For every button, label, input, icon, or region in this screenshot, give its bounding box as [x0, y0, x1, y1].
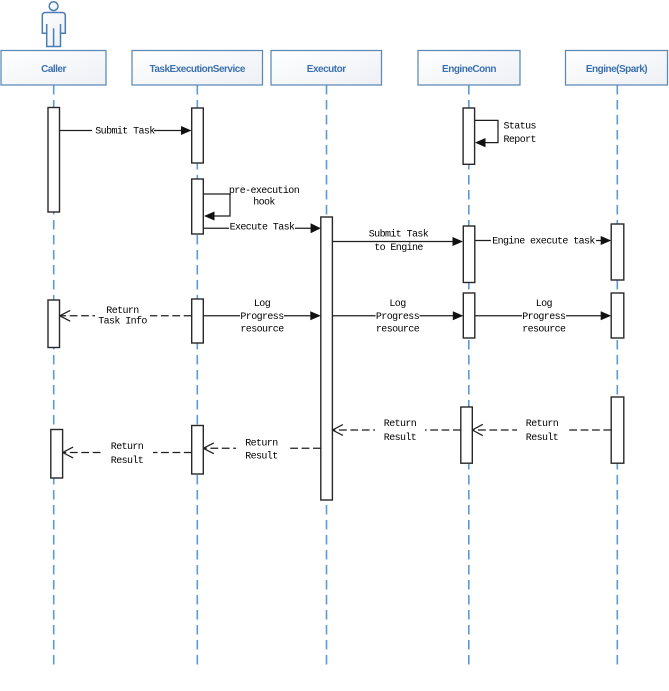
svg-text:Submit Task: Submit Task [95, 125, 155, 137]
svg-text:Submit Task: Submit Task [369, 229, 429, 241]
activation bar TaskExecutionService T3 [192, 299, 204, 343]
svg-text:Return: Return [384, 419, 417, 430]
svg-text:resource: resource [376, 325, 420, 336]
message Log Progress resource (EngineConn to Engine) [475, 299, 611, 335]
svg-text:Status: Status [504, 122, 537, 133]
activation bar EngineConn E2 [463, 226, 475, 283]
svg-text:Task Info: Task Info [98, 316, 147, 328]
message Return Task Info (TES to Caller, dashed) [60, 304, 192, 328]
self message Status Report (EngineConn) [475, 120, 537, 147]
message Return Result (TES to Caller, dashed) [63, 441, 192, 467]
message Engine execute task (EngineConn to Engine) [475, 235, 611, 248]
svg-text:Result: Result [384, 432, 416, 444]
header box Engine(Spark) [566, 51, 668, 86]
lifeline TaskExecutionService [196, 85, 198, 668]
message Return Result (Engine to EngineConn, dashed) [472, 418, 611, 445]
svg-text:resource: resource [240, 325, 284, 336]
svg-text:Log: Log [536, 299, 553, 310]
svg-text:to Engine: to Engine [374, 242, 423, 254]
svg-text:Progress: Progress [240, 312, 284, 323]
svg-text:Return: Return [245, 439, 278, 450]
header box EngineConn [418, 51, 520, 86]
activation bar Engine G2 [611, 293, 624, 338]
self message pre-execution hook (TES) [204, 185, 300, 220]
svg-text:Log: Log [254, 299, 271, 310]
svg-text:Report: Report [504, 135, 536, 146]
activation bar Caller C2 [48, 300, 60, 348]
lifeline Engine(Spark) [616, 85, 618, 668]
lifeline Executor [326, 85, 328, 668]
header box TaskExecutionService [132, 51, 263, 86]
svg-text:Result: Result [526, 432, 558, 444]
message Submit Task to Engine (Executor to EngineConn) [332, 229, 463, 255]
activation bar EngineConn E1 [463, 108, 475, 164]
svg-text:TaskExecutionService: TaskExecutionService [149, 64, 245, 75]
lifeline EngineConn [468, 85, 470, 668]
message Return Result (Executor to TES, dashed) [203, 437, 320, 462]
activation bar TaskExecutionService T4 [192, 426, 204, 475]
message Return Result (EngineConn to Executor, dashed) [332, 418, 460, 445]
lifeline Caller [53, 85, 55, 668]
svg-text:Progress: Progress [376, 312, 420, 323]
activation bar Executor X1 [321, 217, 333, 500]
svg-text:Caller: Caller [41, 64, 66, 75]
header box Caller [1, 51, 106, 86]
activation bar TaskExecutionService T2 [192, 179, 204, 234]
activation bar Caller C3 [51, 430, 63, 479]
activation bar TaskExecutionService T1 [192, 108, 204, 163]
svg-text:Log: Log [389, 299, 406, 310]
svg-text:Return: Return [111, 442, 144, 453]
svg-text:Result: Result [245, 450, 277, 462]
message Log Progress resource (Executor to EngineConn) [332, 299, 463, 335]
activation bar EngineConn E3 [463, 293, 475, 338]
svg-text:Result: Result [111, 455, 143, 467]
svg-text:resource: resource [522, 325, 566, 336]
svg-text:Engine(Spark): Engine(Spark) [586, 64, 647, 75]
activation bar EngineConn E4 [461, 407, 473, 463]
message Log Progress resource (TES to Executor) [204, 299, 321, 335]
svg-text:Executor: Executor [307, 64, 346, 75]
message Submit Task (Caller to TES) [60, 125, 192, 138]
activation bar Caller C1 [48, 108, 60, 213]
activation bar Engine G3 [611, 397, 624, 463]
svg-text:Return: Return [106, 306, 139, 317]
svg-text:hook: hook [253, 197, 275, 209]
svg-text:Execute Task: Execute Task [230, 222, 295, 234]
actor figure above Caller [42, 2, 65, 47]
message Execute Task (TES to Executor) [204, 221, 321, 234]
svg-text:EngineConn: EngineConn [442, 64, 496, 75]
svg-text:Engine execute task: Engine execute task [492, 236, 595, 248]
activation bar Engine G1 [611, 224, 624, 280]
header box Executor [271, 51, 382, 86]
svg-text:pre-execution: pre-execution [229, 185, 300, 197]
svg-text:Progress: Progress [522, 312, 566, 323]
svg-text:Return: Return [526, 419, 559, 430]
